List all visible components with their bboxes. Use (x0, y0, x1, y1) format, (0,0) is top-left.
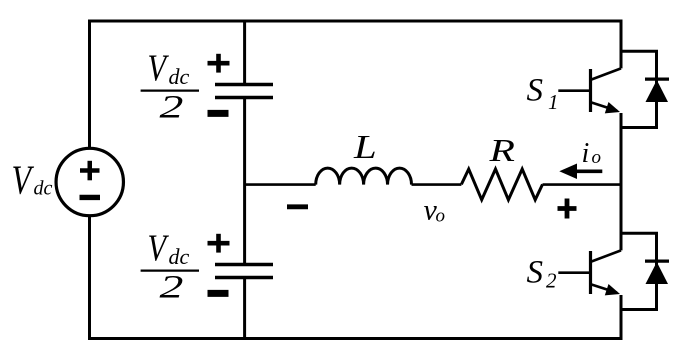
svg-text:2: 2 (546, 269, 557, 293)
current arrow i_o (559, 164, 602, 180)
wire: left rail below source + bottom rail + right rail up to S2 emitter (90, 216, 622, 339)
label i_o (582, 138, 602, 169)
S1 base bar (589, 69, 592, 112)
label V_dc (source) (12, 157, 53, 203)
label S2 (527, 255, 558, 293)
S2 base bar (589, 251, 592, 294)
voltage source V_dc (56, 148, 123, 215)
label v_o (424, 193, 446, 226)
inductor L (316, 168, 412, 185)
S2 collector diagonal (592, 250, 622, 261)
diode D2 symbol (645, 261, 669, 284)
svg-text:S: S (527, 255, 544, 291)
svg-text:2: 2 (160, 88, 184, 125)
svg-text:dc: dc (34, 178, 53, 200)
svg-text:2: 2 (160, 268, 184, 305)
minus sign inside source (80, 195, 101, 200)
S2 base lead (558, 271, 590, 274)
diode D2 loop wires (621, 233, 657, 309)
wire: capacitor branch upper (243, 21, 246, 85)
svg-text:dc: dc (169, 64, 190, 89)
svg-text:V: V (12, 157, 35, 203)
capacitor C2 plates (215, 265, 273, 278)
svg-text:o: o (592, 147, 602, 168)
S1 collector diagonal (592, 68, 622, 79)
svg-text:1: 1 (548, 90, 559, 114)
plus sign (v_o right) (558, 199, 577, 219)
wire: resistor to right rail (543, 183, 622, 186)
S1 base lead (558, 89, 590, 92)
S2 emitter diagonal with arrow (592, 285, 618, 293)
S1 emitter diagonal with arrow (592, 103, 618, 111)
label S1 (527, 73, 559, 114)
capacitor C1 plates (215, 85, 273, 98)
resistor R (461, 169, 542, 200)
plus sign inside source (80, 161, 100, 181)
plus sign at C1 (208, 54, 230, 73)
transistor S1 (558, 68, 621, 113)
diode D1 symbol (645, 79, 669, 102)
label V_dc/2 (upper) (141, 48, 199, 125)
label V_dc/2 (lower) (141, 228, 199, 305)
svg-text:R: R (488, 133, 515, 168)
svg-text:dc: dc (169, 244, 190, 269)
wire: capacitor branch lower (243, 278, 246, 339)
svg-text:S: S (527, 73, 544, 109)
minus sign at C2 (208, 290, 229, 297)
transistor S2 (558, 250, 621, 295)
minus sign (v_o left) (287, 204, 308, 209)
svg-text:o: o (436, 206, 446, 227)
svg-text:i: i (582, 138, 590, 169)
wire: capacitor branch middle (243, 98, 246, 265)
minus sign at C1 (208, 110, 229, 117)
wire: right rail between S1 emitter and S2 collector (620, 113, 623, 250)
diode D1 loop wires (621, 51, 657, 127)
wire: inductor to resistor (412, 183, 462, 186)
wire: output node to inductor (245, 183, 316, 186)
svg-text:L: L (353, 129, 377, 166)
wire: top rail from left rail to right rail (90, 21, 622, 148)
plus sign at C2 (208, 234, 230, 253)
